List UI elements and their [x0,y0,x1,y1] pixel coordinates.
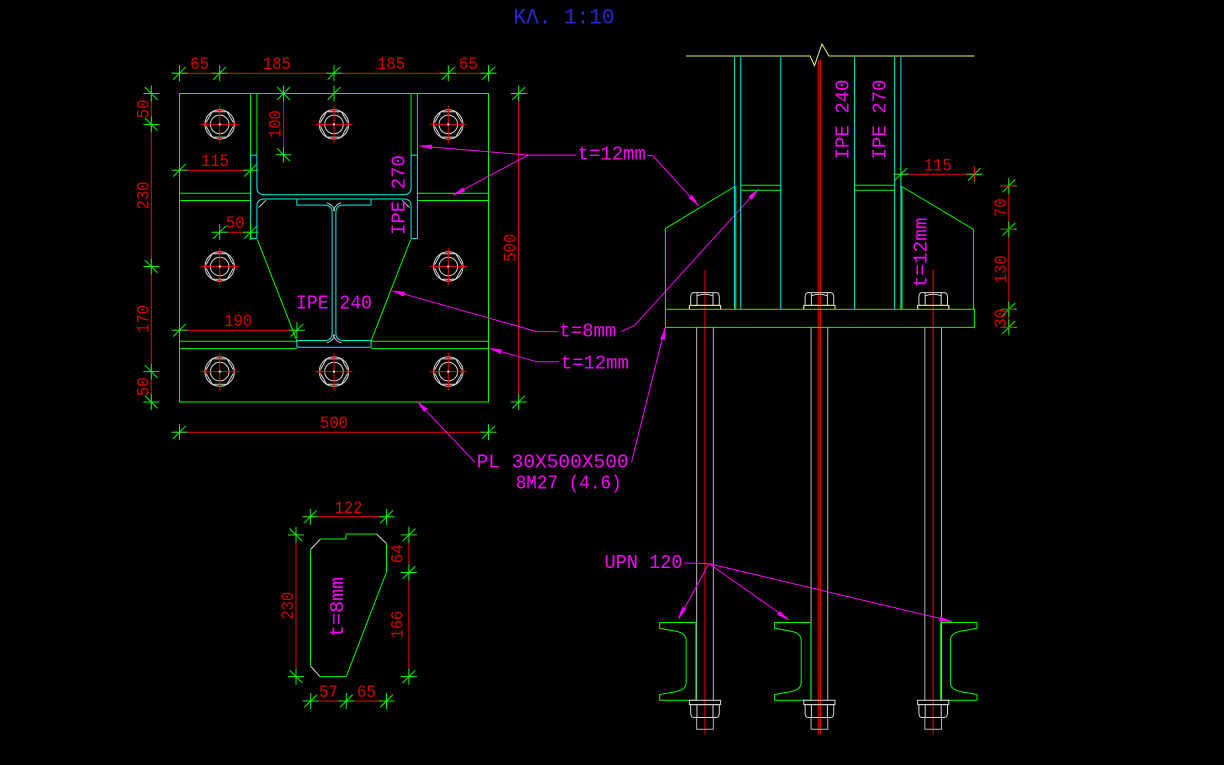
svg-text:65: 65 [190,55,209,75]
elevation center axis red [817,60,819,735]
elevation left gusset [665,187,734,229]
plan bottom stiffener band left [180,340,297,342]
svg-text:8M27 (4.6): 8M27 (4.6) [516,473,622,495]
elevation left anchor bolt centerline [704,270,706,735]
svg-text:500: 500 [320,414,348,434]
plan mid stiffener band right [417,192,488,194]
svg-text:PL 30X500X500: PL 30X500X500 [477,452,629,474]
gusset dim 57-65 [305,700,393,702]
elevation bottom nuts [689,700,720,704]
svg-text:65: 65 [357,683,376,703]
plan dim right 500 [518,88,520,409]
svg-text:65: 65 [459,55,478,75]
plan dim 100 [283,88,285,161]
leader t=8mm to plan diagonal [537,331,558,333]
UPN leaders [684,562,709,565]
svg-text:ΚΛ. 1:10: ΚΛ. 1:10 [514,6,615,31]
svg-text:IPE 270: IPE 270 [389,155,411,235]
svg-text:t=8mm: t=8mm [327,577,349,637]
gusset detail chamfers white [311,539,321,550]
plan dim top 65-185-185-65 [174,72,495,74]
gusset dim 230 [295,529,297,683]
gusset dim 64-166 [408,529,410,683]
elevation stiffener band left [741,184,781,186]
svg-text:166: 166 [388,611,408,639]
svg-text:230: 230 [134,182,154,210]
plan dim left 50-230-170-50 [150,88,152,409]
elevation column break line yellow [686,44,975,66]
elevation IPE270 left flange lines [734,57,736,309]
svg-text:IPE 270: IPE 270 [870,80,892,160]
svg-text:70: 70 [992,198,1012,217]
elevation IPE240 flange lines [780,57,782,309]
plan extra edge ticks [277,87,290,100]
plan dim bottom 500 [174,431,495,433]
anchor channel UPN120 middle [775,623,811,701]
svg-text:185: 185 [263,55,291,75]
anchor channel UPN120 right [941,623,977,701]
svg-text:130: 130 [992,255,1012,283]
svg-text:50: 50 [226,214,245,234]
plan IPE240 section cyan [296,199,298,205]
svg-text:64: 64 [388,544,408,563]
elevation right anchor bolt centerline [932,269,934,735]
svg-text:t=12mm: t=12mm [561,353,629,375]
svg-text:122: 122 [335,499,363,519]
elevation IPE270 right flange lines [894,57,896,309]
svg-text:115: 115 [924,156,952,176]
plan gusset diagonal right [371,240,411,341]
elevation top nuts [689,305,720,309]
plan gusset diagonal left [257,240,297,341]
plan top stiffener right pair [410,94,412,156]
svg-text:t=12mm: t=12mm [911,218,933,288]
leader t=12mm to plan right stiffener band [453,155,528,195]
plan bottom stiffener band right [371,340,488,342]
svg-text:IPE 240: IPE 240 [833,80,855,160]
svg-text:30: 30 [992,309,1012,328]
plan anchor bolts [205,112,234,137]
gusset detail outline [310,550,312,667]
plan mid stiffener band left [180,192,251,194]
svg-text:115: 115 [201,152,229,172]
svg-text:170: 170 [134,305,154,333]
leader t=12mm to elevation gusset [647,154,653,157]
leader PL to elevation plate corner [632,328,666,463]
svg-text:t=8mm: t=8mm [559,321,616,343]
svg-text:500: 500 [502,234,522,262]
svg-text:UPN 120: UPN 120 [605,552,683,574]
svg-text:50: 50 [134,100,154,119]
svg-text:IPE 240: IPE 240 [296,293,372,315]
svg-text:190: 190 [224,312,252,332]
leader t=12mm lower to plan bottom band [537,361,560,363]
plan IPE270 section cyan [250,155,252,238]
elevation dim 70-130-30 [1008,180,1010,333]
elevation stiffener band right [855,184,895,186]
plan weld fillet marks [327,203,335,211]
svg-text:t=12mm: t=12mm [578,144,646,166]
svg-text:185: 185 [377,55,405,75]
anchor channel UPN120 left [660,623,696,701]
plan dim 115 [174,169,257,171]
plan base plate 500x500 [180,94,489,403]
leader t=12mm to plan right stiffener vertical [528,154,576,156]
svg-text:50: 50 [134,377,154,396]
elevation dim 115 [895,173,981,175]
svg-text:57: 57 [319,683,338,703]
svg-text:100: 100 [267,110,287,138]
plan top stiffener left pair [250,94,252,156]
elevation right gusset [901,186,974,229]
elevation base plate [665,309,974,327]
plan dim 190 [174,329,303,331]
elevation anchor bolt shanks [696,327,698,700]
svg-text:230: 230 [279,592,299,620]
leader t=8mm to elevation stiffener [621,326,635,332]
plan dim 50 [214,231,257,233]
leader PL to plan plate edge [418,402,476,463]
gusset dim 122 [304,516,392,518]
